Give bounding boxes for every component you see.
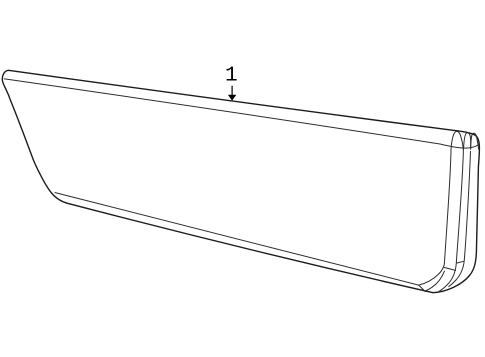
arch between V3 and outer right edge (471, 133, 479, 149)
tick B (chamfer mark between V1 and V2) (444, 267, 456, 270)
corner band sweep (bottom-right wrap) (425, 271, 445, 292)
tick C (chamfer mark between V2 and V3) (457, 261, 465, 263)
tick A (corner chamfer mark near face bottom corner) (419, 285, 426, 292)
contour line V2: stem and lower sweep (438, 150, 463, 292)
inner top line (front face top edge) (4, 79, 479, 148)
callout arrow shaft (231, 86, 233, 95)
callout arrow head (228, 95, 236, 101)
label 1 (227, 67, 237, 81)
front face: inner bottom edge, bottom-right corner, right edge V1, top arch to V2 (55, 131, 464, 285)
outer outline of molding (2, 70, 479, 292)
contour line V3: stem and lower sweep (449, 151, 471, 287)
arch between V2 and V3 (464, 133, 471, 150)
